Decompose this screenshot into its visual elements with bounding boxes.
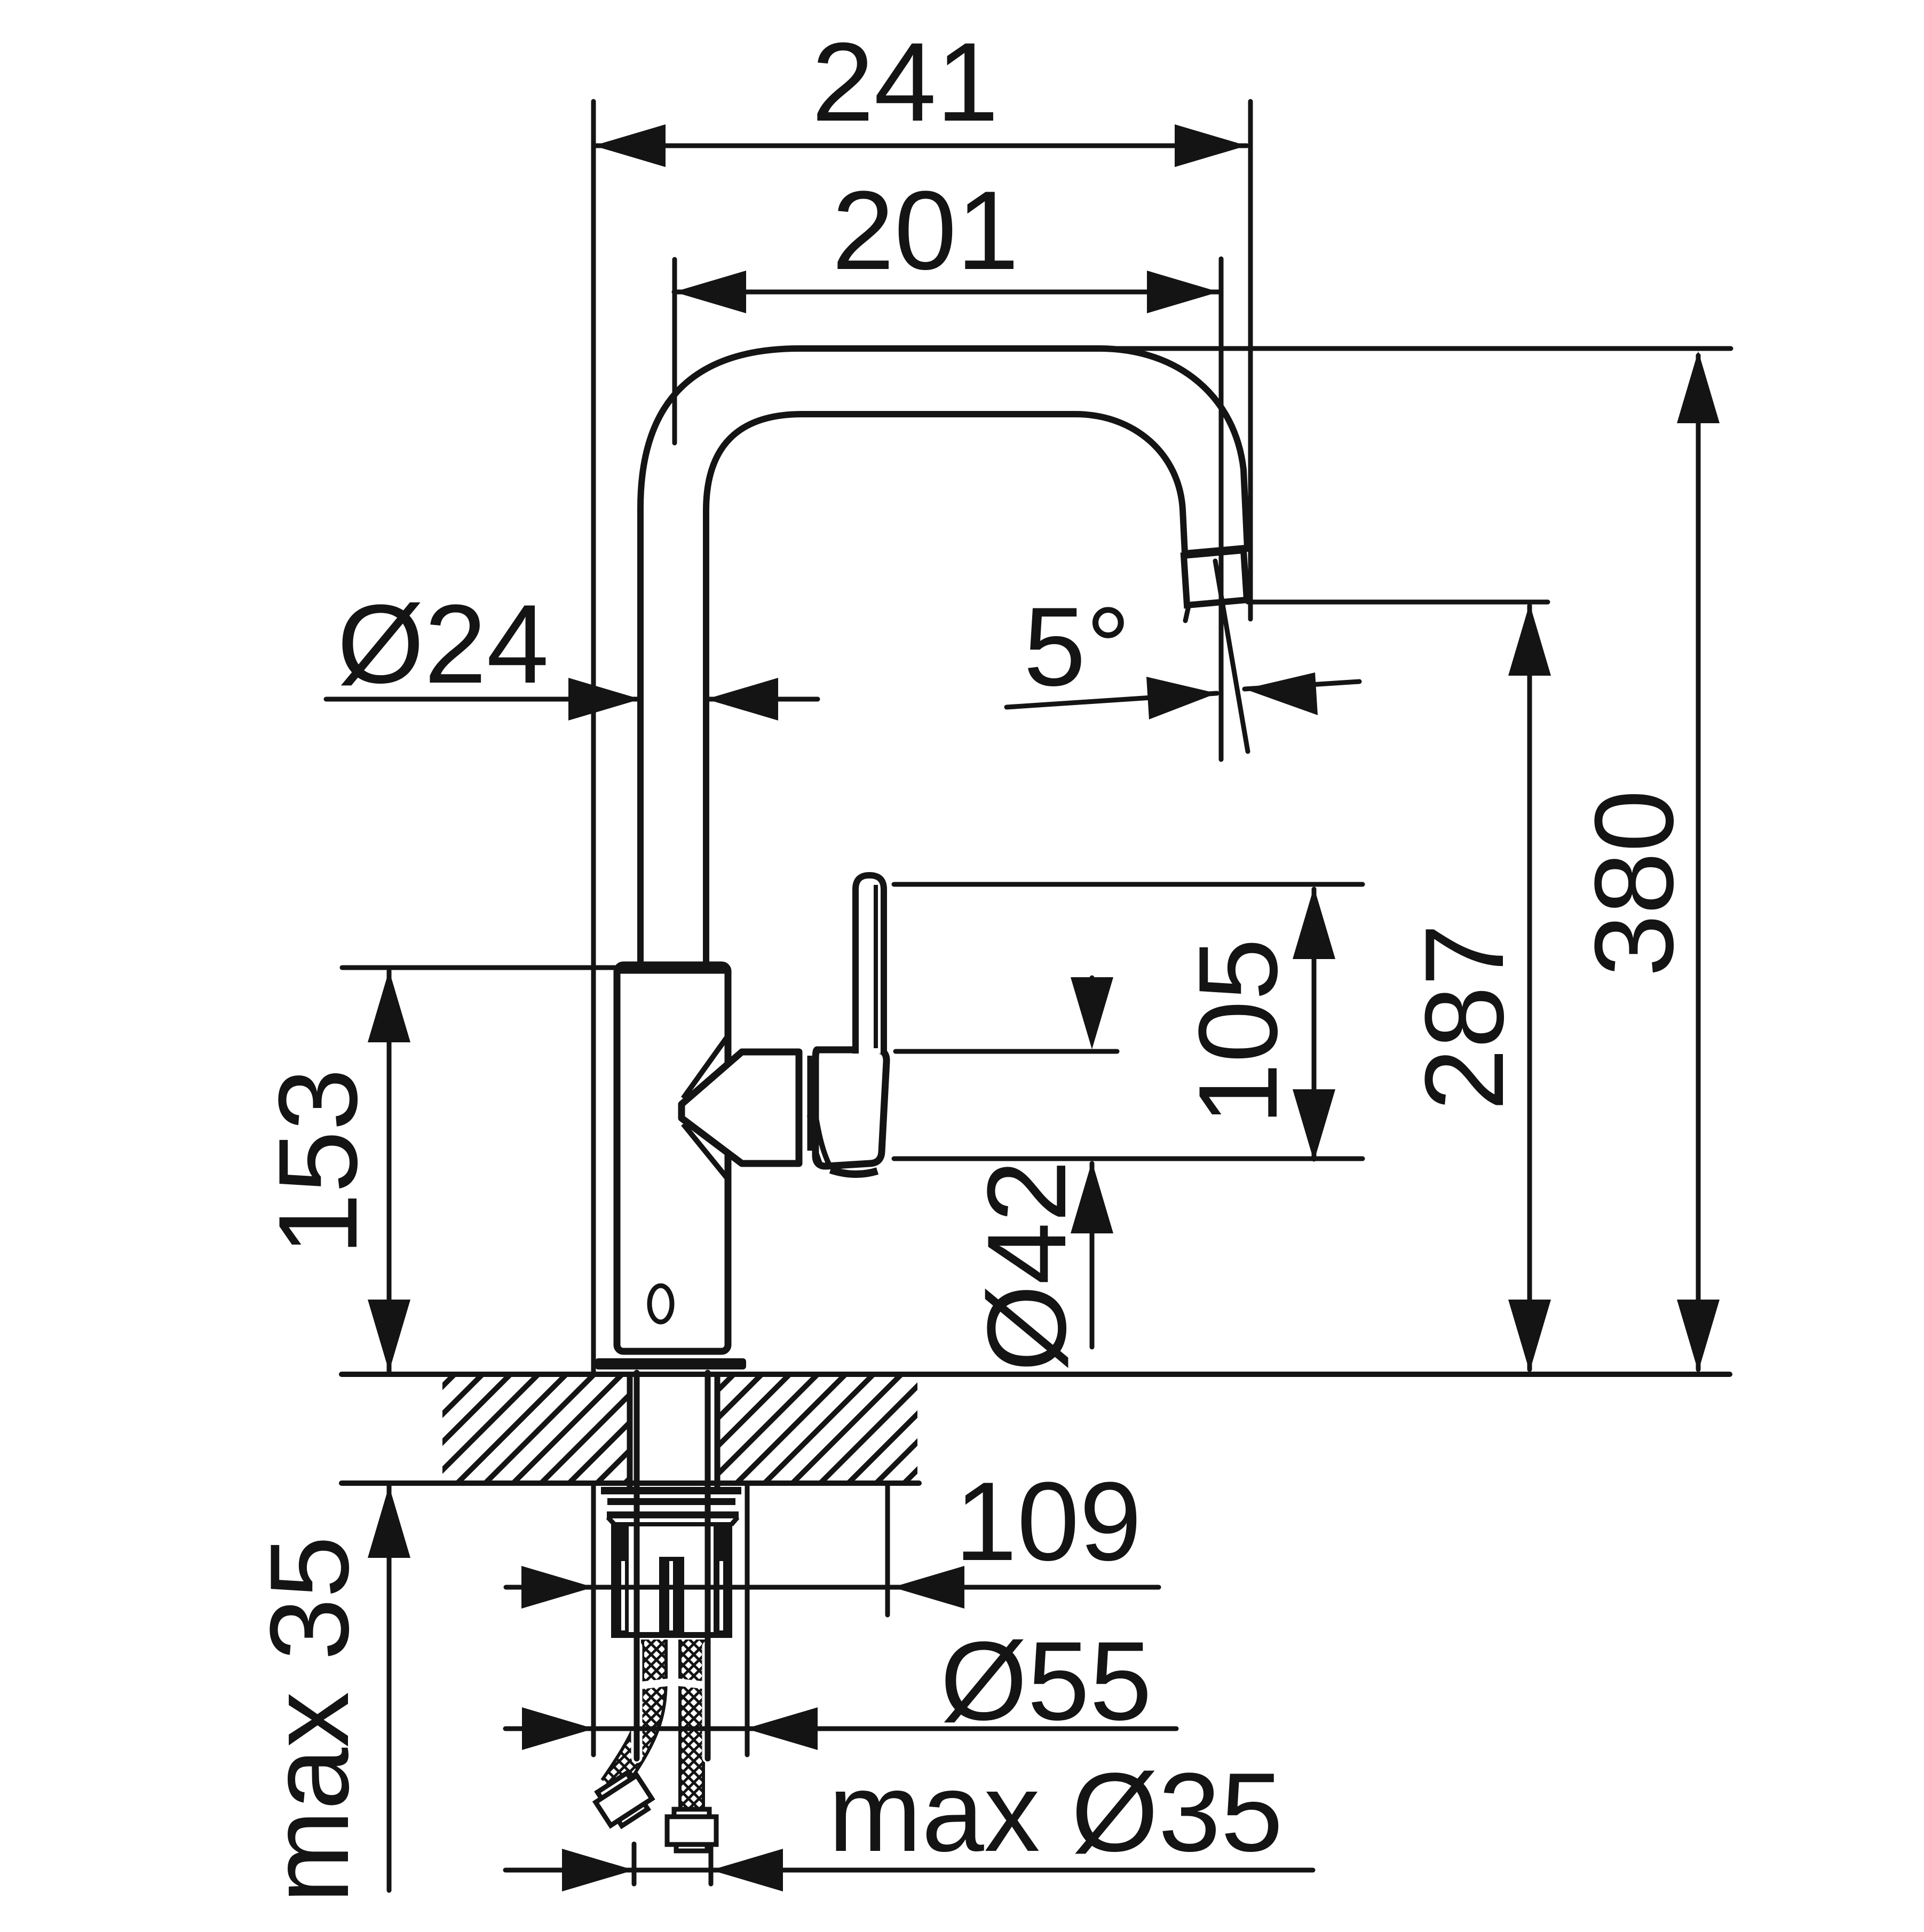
dimension line 109 overlay	[603, 1585, 774, 1590]
hose right braid	[682, 1640, 702, 1810]
arrowhead d55 right	[746, 1707, 818, 1750]
stud rod right casing	[702, 1646, 714, 1757]
svg-text:287: 287	[1402, 924, 1527, 1111]
dimension line d24 left segment	[326, 697, 640, 702]
joint wedge hexagon	[682, 1052, 799, 1163]
shank right edge	[715, 1372, 720, 1488]
svg-text:109: 109	[955, 1459, 1142, 1584]
outlet aerator	[1184, 550, 1247, 605]
extension line body top	[342, 965, 618, 970]
svg-text:max Ø35: max Ø35	[828, 1749, 1283, 1875]
deck hatch right block	[718, 1377, 917, 1480]
spout inner outline	[706, 414, 1185, 968]
deck bottom line	[342, 1480, 919, 1486]
svg-text:Ø55: Ø55	[940, 1618, 1152, 1744]
dimension line d24 right segment	[706, 697, 818, 702]
arrowhead 201 right	[1147, 271, 1219, 313]
svg-text:201: 201	[832, 168, 1019, 293]
spout outer outline	[640, 349, 1247, 968]
svg-text:Ø24: Ø24	[337, 581, 549, 707]
outlet joint line	[1185, 548, 1245, 553]
arrowhead maxd35 left	[562, 1849, 634, 1891]
lever bar	[856, 875, 884, 1054]
extension line spout top level	[1105, 346, 1731, 351]
arrowhead 241 right	[1175, 124, 1247, 167]
svg-text:Ø42: Ø42	[964, 1160, 1089, 1372]
nut bottom bar	[611, 1632, 732, 1638]
arrowhead 287 top	[1508, 604, 1551, 676]
arrowhead 153 bottom	[368, 1300, 410, 1372]
washer side left	[608, 1517, 615, 1525]
stud rod right	[705, 1373, 711, 1759]
arrowhead 109 right	[892, 1566, 964, 1609]
fitting left	[591, 1769, 655, 1831]
logo oval	[650, 1286, 672, 1322]
extension line left long (x=1112)	[591, 101, 596, 1755]
grip inner curve 2	[809, 1115, 822, 1168]
nut left wall	[611, 1524, 629, 1638]
hose right outline	[678, 1640, 705, 1810]
svg-text:max 35: max 35	[247, 1536, 372, 1904]
dimension line 380	[1696, 355, 1701, 1369]
arrowhead maxd35 right	[711, 1849, 783, 1891]
d42 upper tick line	[1090, 978, 1095, 987]
extension line 241 right (x=2343)	[1248, 101, 1253, 619]
extension line lever top	[894, 882, 1363, 887]
dimension line d55	[505, 1727, 1176, 1731]
joint bevel lower line	[683, 1124, 729, 1181]
dimension line 109	[506, 1585, 1159, 1590]
dimension line 241	[593, 144, 1247, 148]
fitting right	[667, 1809, 716, 1851]
washer ring 1	[601, 1487, 741, 1494]
arrowhead d24 left	[568, 678, 640, 720]
svg-text:153: 153	[255, 1068, 381, 1255]
arrowhead d55 left	[522, 1707, 594, 1750]
washer ring 3	[607, 1511, 739, 1518]
arrowhead max35 up	[368, 1486, 410, 1558]
arrowhead 380 top	[1677, 351, 1720, 423]
arrowhead d24 right	[706, 678, 778, 720]
svg-text:105: 105	[1175, 938, 1301, 1125]
dimension line max35	[387, 1486, 392, 1890]
5 deg dim line right	[1245, 682, 1359, 689]
svg-text:241: 241	[812, 19, 999, 145]
nut right wall	[714, 1524, 732, 1638]
dimension line 153	[387, 971, 392, 1372]
arrowhead 109 left	[521, 1566, 593, 1609]
grip bottom shadow	[830, 1170, 877, 1174]
extension line maxd35 right stub	[709, 1844, 714, 1884]
5 deg dim line left	[1007, 693, 1217, 707]
arrowhead 241 left	[593, 124, 666, 167]
deck hatch left block	[442, 1377, 628, 1480]
hose seam right	[678, 1682, 707, 1685]
handle grip base	[815, 1050, 886, 1166]
nut middle column	[659, 1557, 684, 1638]
base flange	[595, 1358, 746, 1369]
5 deg reference slant line	[1215, 561, 1248, 751]
nut wall highlight left	[621, 1561, 625, 1630]
arrowhead 201 left	[674, 271, 746, 313]
arrowhead 380 bottom	[1677, 1300, 1720, 1372]
extension line handle top	[896, 1049, 1117, 1054]
grip inner curve 1	[815, 1111, 830, 1167]
deck top line	[342, 1372, 1730, 1377]
extension line d55 right (x=1400)	[745, 1484, 750, 1755]
arrowhead d42 upper	[1071, 977, 1113, 1049]
arrowhead 153 top	[368, 970, 410, 1042]
dimension line d55 overlay	[603, 1727, 774, 1731]
nut wall highlight mid	[669, 1561, 673, 1630]
body	[617, 965, 728, 1351]
washer bottom line	[615, 1522, 731, 1526]
arrowhead 5deg left	[1146, 677, 1217, 719]
arrowhead 5deg right	[1245, 672, 1318, 715]
arrowhead d42 lower	[1071, 1161, 1113, 1233]
joint bevel upper line	[683, 1034, 729, 1098]
lever inner line	[874, 885, 878, 1048]
svg-text:5°: 5°	[1024, 584, 1131, 709]
dimension line 201	[674, 290, 1219, 295]
extension line outlet level	[1248, 600, 1548, 605]
body top edge	[620, 965, 725, 974]
hose seam left	[640, 1682, 669, 1685]
shank left edge	[627, 1372, 633, 1488]
dimension line maxd35	[505, 1868, 1313, 1873]
arrowhead 287 bottom	[1508, 1300, 1551, 1372]
extension line maxd35 left stub	[632, 1844, 637, 1884]
nut wall highlight right	[719, 1561, 723, 1630]
extension line 109 right (x=1663)	[885, 1478, 890, 1615]
washer side right	[731, 1517, 738, 1525]
grip seam line	[807, 1056, 812, 1151]
washer ring 2	[607, 1498, 735, 1505]
d42 lower tick line	[1090, 1163, 1095, 1347]
hose left braid	[612, 1640, 654, 1787]
dimension line 287	[1527, 606, 1532, 1369]
stud rod left	[634, 1373, 640, 1759]
extension line 201 left (x=1264)	[672, 259, 677, 443]
arrowhead 105 top	[1293, 887, 1335, 959]
extension line 201 right (x=2288)	[1219, 259, 1224, 759]
svg-text:380: 380	[1571, 790, 1697, 977]
arrowhead 105 bottom	[1293, 1089, 1335, 1161]
stud rod left casing	[631, 1646, 643, 1757]
dimension line 105	[1312, 889, 1317, 1159]
outlet lip tick	[1185, 606, 1189, 621]
hose left outline	[612, 1640, 654, 1787]
extension line handle bottom	[894, 1157, 1363, 1161]
